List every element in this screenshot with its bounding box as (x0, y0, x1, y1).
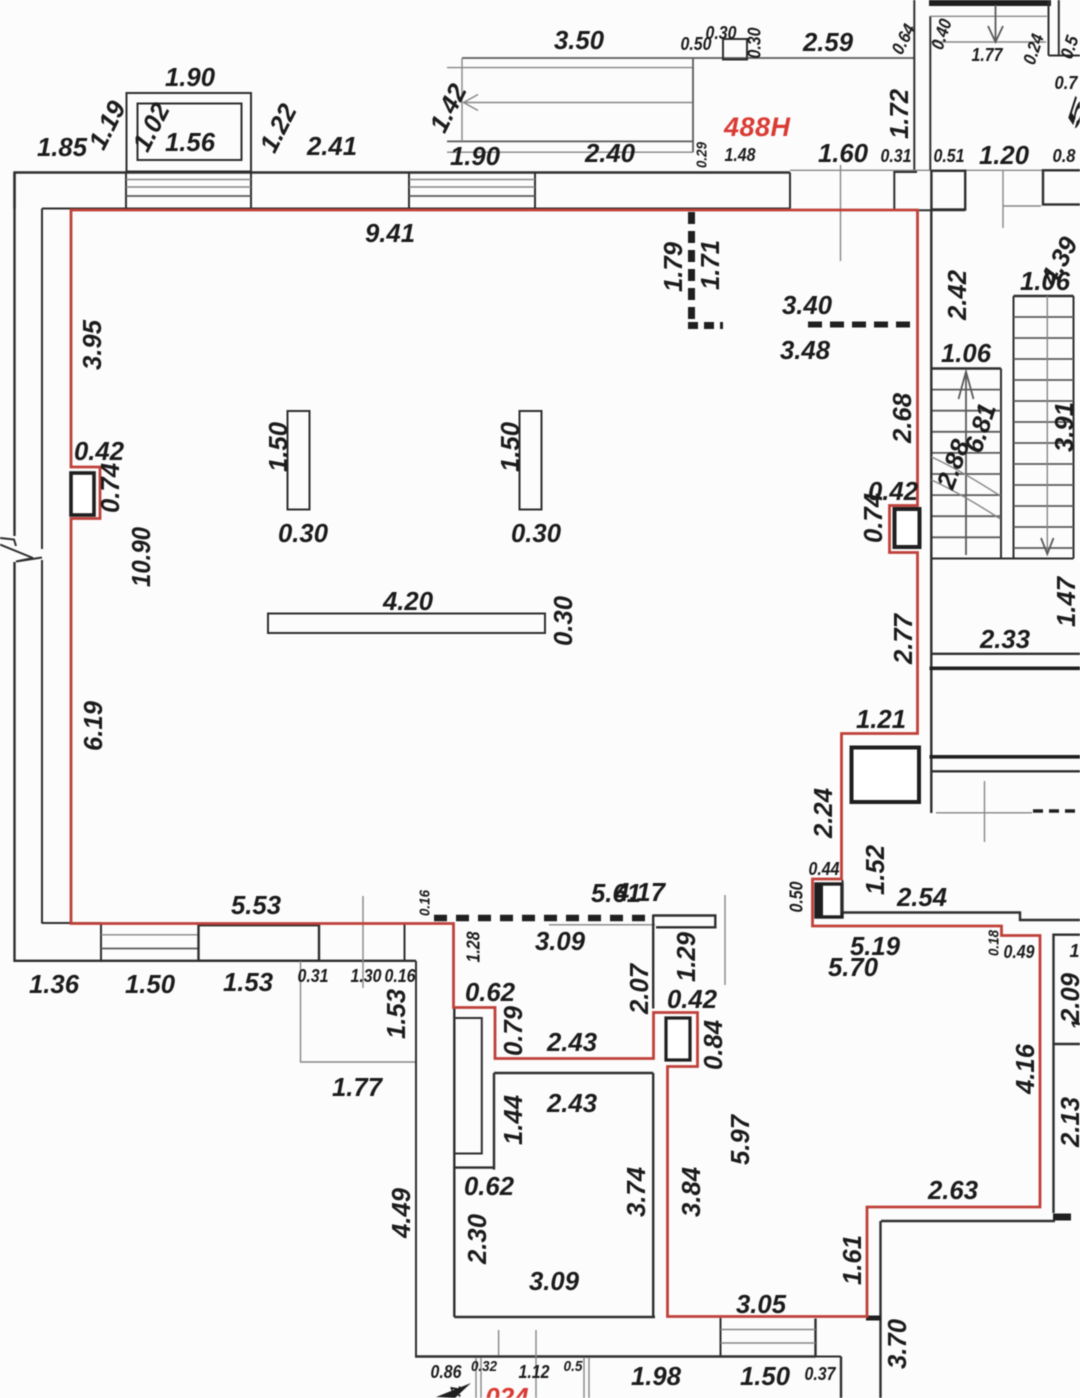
svg-text:2.30: 2.30 (462, 1213, 492, 1265)
dimension tick 1.60 (840, 165, 842, 261)
wall below window turning down (840, 1357, 842, 1398)
svg-text:3.09: 3.09 (535, 926, 586, 956)
svg-text:3.05: 3.05 (736, 1289, 787, 1319)
dim line 1.77 bottom (931, 41, 1046, 43)
lower unit thin walls (475, 1358, 477, 1398)
svg-text:0.32: 0.32 (471, 1358, 498, 1375)
svg-text:1.77: 1.77 (332, 1072, 384, 1102)
svg-text:1.72: 1.72 (884, 88, 914, 139)
svg-text:0.37: 0.37 (805, 1364, 837, 1384)
ramp bottom second line (447, 151, 693, 153)
bottom arrow glyph (436, 1383, 471, 1398)
svg-text:0.18: 0.18 (986, 929, 1003, 956)
tick x363 (362, 896, 364, 988)
wall cap x251 (250, 173, 252, 209)
column 0.30 top (723, 39, 747, 60)
svg-text:1.12: 1.12 (519, 1362, 550, 1382)
neighbour unit wall below red (1054, 935, 1080, 1213)
bottom window W4 caps (720, 1318, 722, 1357)
wall cap x790 (789, 173, 791, 209)
svg-text:4.16: 4.16 (1010, 1043, 1040, 1095)
ramp left vertical (461, 58, 463, 141)
corridor south wall line2 bold (930, 666, 1080, 670)
bottom wall inner edge corner (42, 922, 101, 924)
stair landing line (933, 558, 1074, 560)
left wall outer line lower (13, 562, 15, 962)
ramp arrowhead (464, 95, 479, 111)
svg-text:3.84: 3.84 (676, 1166, 706, 1217)
left wall inner line upper (41, 209, 43, 550)
top wall piece 894-917 (894, 172, 917, 210)
svg-text:0.44: 0.44 (809, 859, 840, 879)
svg-text:1.50: 1.50 (495, 421, 525, 472)
tick x536 (535, 1330, 537, 1398)
svg-text:0.84: 0.84 (698, 1019, 728, 1070)
svg-text:1.47: 1.47 (1051, 575, 1080, 627)
svg-text:2.42: 2.42 (942, 269, 972, 321)
svg-text:2.54: 2.54 (896, 882, 948, 912)
svg-text:9.41: 9.41 (365, 218, 415, 248)
svg-text:1.79: 1.79 (658, 241, 688, 292)
svg-text:10.90: 10.90 (126, 527, 156, 587)
dim line 0.40 top (930, 15, 1047, 17)
bottom wall outer edge left (15, 960, 416, 962)
stair flight left steps (933, 390, 1002, 538)
svg-text:2.68: 2.68 (887, 392, 917, 444)
wall block C (1043, 170, 1080, 204)
window W1 glazing lines (126, 179, 251, 181)
wall cap x126 (125, 173, 127, 209)
dashed projection line bottom of great room (434, 915, 650, 922)
svg-text:2.09: 2.09 (1055, 972, 1080, 1024)
svg-text:1.50: 1.50 (740, 1361, 791, 1391)
svg-text:3.50: 3.50 (554, 25, 605, 55)
wall cap x535 (534, 173, 536, 209)
thin line below elevator band (936, 812, 1032, 814)
svg-text:0.30: 0.30 (548, 595, 578, 646)
stair down arrowhead (1041, 538, 1054, 554)
dashed partition vertical 1.79 (688, 212, 695, 322)
svg-text:024: 024 (485, 1382, 529, 1398)
stair up arrow (965, 372, 967, 555)
svg-text:1.20: 1.20 (979, 140, 1030, 170)
svg-text:1.1: 1.1 (448, 1386, 465, 1398)
thin corridor floor line (790, 169, 1080, 171)
svg-text:0.16: 0.16 (417, 889, 434, 916)
svg-text:1.36: 1.36 (29, 969, 80, 999)
svg-text:0.30: 0.30 (511, 518, 562, 548)
svg-text:1.30: 1.30 (351, 966, 382, 986)
tick vertical mid band (984, 781, 986, 842)
stair flight right steps (1014, 317, 1074, 548)
svg-text:0.62: 0.62 (465, 977, 516, 1007)
thin line under dashes (549, 924, 655, 926)
lower right inner wall vertical 3.70 (879, 1221, 881, 1398)
red-black corner blob (866, 1316, 881, 1321)
stair flight right west edge (1013, 296, 1015, 559)
svg-text:0.30: 0.30 (278, 518, 329, 548)
svg-text:5.97: 5.97 (725, 1113, 755, 1165)
svg-text:4.20: 4.20 (382, 586, 434, 616)
svg-text:2.43: 2.43 (546, 1027, 598, 1057)
tick x498 (498, 1330, 500, 1355)
stub below shaft (454, 1166, 495, 1168)
left wall column black (71, 473, 94, 515)
svg-text:1.21: 1.21 (856, 704, 906, 734)
svg-text:0.51: 0.51 (934, 146, 965, 166)
svg-text:2.59: 2.59 (802, 27, 854, 57)
unit bottom wall outer edge (415, 1355, 816, 1357)
svg-text:1.61: 1.61 (837, 1235, 867, 1285)
ramp second line (447, 67, 693, 69)
neighbour wall pair top right (1048, 0, 1050, 56)
stair right centerline (1046, 296, 1048, 552)
svg-text:1.71: 1.71 (695, 240, 725, 290)
neighbour wall horizontal (1049, 55, 1080, 57)
svg-text:0.16: 0.16 (385, 966, 417, 986)
svg-text:1.85: 1.85 (37, 132, 88, 162)
stairwell west wall (930, 210, 932, 813)
svg-text:2.13: 2.13 (1055, 1096, 1080, 1148)
svg-text:1.48: 1.48 (725, 145, 756, 165)
left wall outer line upper (13, 173, 15, 537)
bottom wall cap x404 (404, 924, 406, 961)
svg-text:0.74: 0.74 (858, 492, 888, 543)
lower right inner wall horizontal (881, 1220, 1055, 1222)
unit boundary red line (71, 210, 1040, 1317)
svg-text:1.29: 1.29 (671, 931, 701, 982)
svg-text:3.91: 3.91 (1049, 402, 1079, 452)
inner room bottom / unit bottom wall top edge (454, 1316, 655, 1318)
svg-text:1.90: 1.90 (450, 141, 501, 171)
stair cut line (932, 457, 1001, 519)
window W2 glazing lines (409, 179, 535, 181)
corridor bottom wall 2.54 (843, 913, 1080, 921)
svg-text:0.74: 0.74 (95, 462, 125, 513)
svg-text:0.31: 0.31 (881, 146, 912, 166)
svg-text:0.42: 0.42 (667, 984, 718, 1014)
neighbour divider (1054, 1043, 1080, 1045)
shaft rectangle (455, 1018, 482, 1154)
dashes right of thin line (1033, 809, 1080, 813)
left wall inner line lower (41, 560, 43, 924)
svg-text:6.19: 6.19 (78, 700, 108, 751)
svg-text:1.: 1. (1069, 941, 1080, 961)
wall break symbol (0, 538, 42, 562)
wall top outer edge (15, 173, 791, 209)
wall band 656-715 (653, 916, 715, 928)
corridor west wall stub (842, 880, 844, 913)
svg-text:1.52: 1.52 (860, 844, 890, 895)
corridor south wall line1 (931, 653, 1080, 655)
top-right black bar (929, 0, 1051, 6)
svg-text:0.30: 0.30 (706, 23, 737, 43)
svg-text:2.77: 2.77 (888, 612, 918, 665)
lower section west wall (415, 961, 417, 1357)
corridor column black (816, 884, 842, 917)
bottom window W3 lines (101, 934, 199, 936)
svg-text:1.98: 1.98 (631, 1361, 682, 1391)
svg-text:2.63: 2.63 (927, 1175, 979, 1205)
wall cap x409 (408, 173, 410, 209)
svg-text:1.28: 1.28 (464, 932, 484, 963)
door swing thin lines right (1002, 170, 1004, 228)
svg-text:1.90: 1.90 (165, 62, 216, 92)
pillar P2 (520, 411, 542, 510)
svg-text:3.09: 3.09 (529, 1266, 580, 1296)
bold room bottom (930, 755, 1080, 759)
svg-text:2.43: 2.43 (546, 1088, 598, 1118)
ramp right vertical (692, 58, 694, 152)
short black link right of red corner (919, 209, 965, 211)
wall block B (931, 171, 965, 210)
bottom wall cap x101 (100, 923, 102, 961)
svg-text:5.70: 5.70 (828, 952, 879, 982)
stair flight right top edge (1014, 295, 1074, 297)
svg-text:2.33: 2.33 (979, 624, 1031, 654)
svg-text:0.49: 0.49 (1004, 942, 1035, 962)
inner vertical wall x454 (453, 1008, 455, 1317)
svg-text:2.40: 2.40 (584, 138, 636, 168)
ramp middle line (464, 102, 693, 104)
inner room east wall upper (652, 915, 654, 1009)
right wall column black (895, 509, 920, 547)
inner room west wall (493, 1073, 495, 1170)
svg-text:0.8: 0.8 (1053, 146, 1076, 166)
dashed wall 3.40 (808, 322, 918, 328)
svg-text:0.62: 0.62 (464, 1171, 515, 1201)
bottom window W4 lines (721, 1329, 816, 1331)
dashed partition foot (688, 322, 723, 329)
band line below (931, 770, 1080, 772)
svg-text:3.95: 3.95 (77, 319, 107, 370)
svg-text:2.24: 2.24 (808, 787, 838, 839)
svg-text:3.74: 3.74 (621, 1166, 651, 1217)
svg-text:1.44: 1.44 (498, 1094, 528, 1145)
svg-text:3.40: 3.40 (782, 290, 833, 320)
svg-text:2.41: 2.41 (306, 131, 357, 161)
pillar P1 (288, 411, 310, 510)
svg-text:0.31: 0.31 (298, 966, 329, 986)
neighbour corner block (1053, 1214, 1071, 1221)
svg-text:4.49: 4.49 (386, 1187, 416, 1239)
svg-text:0.86: 0.86 (431, 1362, 463, 1382)
svg-text:3.48: 3.48 (780, 335, 831, 365)
door column mid-bottom (666, 1018, 690, 1060)
corridor wall strip right line (929, 16, 931, 170)
svg-text:3.70: 3.70 (882, 1318, 912, 1369)
elevator shaft (852, 748, 920, 803)
svg-text:0.7: 0.7 (1055, 73, 1079, 93)
porch thin outline (301, 961, 417, 1062)
svg-text:0.79: 0.79 (498, 1005, 528, 1056)
stair flight left top edge (933, 367, 1002, 369)
svg-text:4.17: 4.17 (614, 877, 667, 907)
svg-text:1.53: 1.53 (223, 967, 274, 997)
inner room top (494, 1072, 653, 1074)
svg-text:5.53: 5.53 (231, 890, 282, 920)
inner room east wall lower (652, 1073, 654, 1317)
ramp top thick line (462, 57, 914, 59)
svg-text:0.30: 0.30 (745, 28, 765, 59)
svg-text:1.50: 1.50 (125, 969, 176, 999)
svg-text:1.53: 1.53 (381, 988, 411, 1039)
balcony outer box (127, 93, 252, 172)
stair flight right east edge (1073, 296, 1075, 559)
svg-text:1.77: 1.77 (972, 45, 1004, 65)
stair flight left east edge (1000, 369, 1002, 559)
svg-text:488Н: 488Н (723, 112, 791, 142)
down arrow corridor (988, 5, 1003, 42)
svg-text:0.50: 0.50 (787, 882, 807, 913)
ramp bottom line (447, 140, 693, 142)
balcony inner box (138, 104, 242, 161)
svg-text:0.29: 0.29 (694, 141, 711, 168)
wall top inner edge (42, 208, 790, 210)
tick x725 (724, 895, 726, 985)
svg-text:1.56: 1.56 (165, 127, 216, 157)
bottom wall block 1.53 (199, 925, 320, 961)
svg-text:0.5: 0.5 (564, 1358, 584, 1375)
svg-text:1.60: 1.60 (818, 138, 869, 168)
partition bar 4.20 (268, 614, 545, 634)
svg-text:0.42: 0.42 (74, 436, 125, 466)
svg-text:1.50: 1.50 (263, 421, 293, 472)
svg-text:2.07: 2.07 (624, 962, 654, 1015)
svg-text:1.06: 1.06 (941, 338, 992, 368)
corridor wall strip left line (913, 0, 915, 170)
